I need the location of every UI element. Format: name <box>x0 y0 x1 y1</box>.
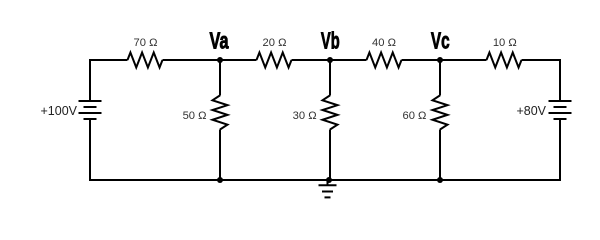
battery V2 +80V plates <box>549 101 572 119</box>
wire left top vertical <box>89 59 91 101</box>
svg-text:30 Ω: 30 Ω <box>293 110 317 122</box>
wire top-right segment <box>522 59 561 61</box>
wire top-left segment <box>90 59 128 61</box>
wire bottom rail <box>90 179 560 181</box>
wire 70Ω to node Va <box>163 59 257 61</box>
node dot Vb <box>327 57 333 63</box>
node dot Vc <box>437 57 443 63</box>
svg-text:60 Ω: 60 Ω <box>402 110 426 122</box>
svg-text:Va: Va <box>210 27 229 53</box>
battery V1 +100V plates <box>79 101 102 119</box>
resistor 20Ω <box>257 53 292 68</box>
svg-text:40 Ω: 40 Ω <box>372 37 396 49</box>
svg-text:Vc: Vc <box>431 27 450 53</box>
wire right bottom vertical <box>559 119 561 181</box>
ground bar 1 <box>319 184 337 186</box>
wire node Vb span <box>292 59 367 61</box>
wire right top vertical <box>559 59 561 101</box>
svg-text:20 Ω: 20 Ω <box>263 37 287 49</box>
node dot bottom-left junction <box>217 177 223 183</box>
ground bar 2 <box>322 191 333 193</box>
ground bar 3 <box>325 196 331 198</box>
wire 60Ω to bottom rail <box>439 130 441 181</box>
node dot ground junction <box>326 177 332 183</box>
ground stub <box>327 180 329 185</box>
wire Vb stub <box>329 60 331 96</box>
wire Vc stub <box>439 60 441 96</box>
wire Va stub <box>219 60 221 96</box>
wire 50Ω to bottom rail <box>219 130 221 181</box>
svg-text:+80V: +80V <box>516 104 546 118</box>
node dot bottom-right junction <box>437 177 443 183</box>
resistor 30Ω <box>323 95 338 129</box>
resistor 50Ω <box>213 95 228 129</box>
resistor 60Ω <box>433 95 448 129</box>
resistor 10Ω <box>487 53 522 68</box>
wire node Vc span <box>402 59 487 61</box>
resistor 40Ω <box>367 53 402 68</box>
svg-text:Vb: Vb <box>321 27 340 53</box>
svg-text:10 Ω: 10 Ω <box>493 37 517 49</box>
svg-text:+100V: +100V <box>41 104 78 118</box>
svg-text:50 Ω: 50 Ω <box>183 110 207 122</box>
svg-text:70 Ω: 70 Ω <box>134 37 158 49</box>
resistor 70Ω <box>128 53 163 68</box>
wire 30Ω to bottom rail <box>329 130 331 181</box>
wire left bottom vertical <box>89 119 91 181</box>
node dot Va <box>217 57 223 63</box>
